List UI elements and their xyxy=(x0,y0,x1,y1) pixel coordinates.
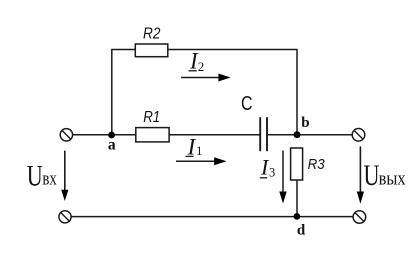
svg-text:U: U xyxy=(27,160,43,193)
svg-text:U: U xyxy=(364,159,380,192)
svg-text:a: a xyxy=(108,136,116,153)
node b xyxy=(294,115,310,138)
wire top-left vertical (node a to top branch) xyxy=(111,50,113,136)
wire R3 bottom lead (R3 to node d) xyxy=(296,180,298,217)
svg-text:R1: R1 xyxy=(143,109,160,126)
svg-text:R2: R2 xyxy=(143,26,160,43)
wire middle branch right segment (capacitor to output terminal through node b) xyxy=(267,134,352,136)
terminal output top xyxy=(352,129,365,142)
wire top-right vertical (top branch down to node b) xyxy=(296,50,298,135)
node a xyxy=(108,132,116,154)
svg-text:вых: вых xyxy=(379,168,406,189)
wire middle branch left segment (input terminal to R1) xyxy=(73,134,136,136)
svg-text:d: d xyxy=(297,223,306,239)
terminal input top xyxy=(60,129,72,141)
svg-text:R3: R3 xyxy=(308,157,325,173)
current arrow I1 xyxy=(176,134,227,165)
svg-text:1: 1 xyxy=(196,143,203,158)
wire middle branch centre segment (R1 to capacitor) xyxy=(169,134,260,136)
terminal output bottom xyxy=(353,211,366,224)
voltage arrow Uвх xyxy=(27,151,69,201)
svg-text:b: b xyxy=(301,115,309,131)
wire top branch right segment xyxy=(168,49,298,51)
wire top branch left segment xyxy=(111,49,135,51)
resistor R3 xyxy=(291,148,325,180)
capacitor C xyxy=(241,92,267,151)
svg-text:2: 2 xyxy=(198,59,205,74)
current arrow I3 xyxy=(260,151,287,204)
svg-text:вх: вх xyxy=(42,169,57,190)
terminal input bottom xyxy=(59,211,71,223)
node d xyxy=(294,213,306,239)
wire bottom branch xyxy=(71,216,353,218)
resistor R2 xyxy=(135,26,168,57)
resistor R1 xyxy=(136,109,169,142)
current arrow I2 xyxy=(181,49,231,82)
svg-text:3: 3 xyxy=(269,165,275,179)
svg-text:C: C xyxy=(241,92,253,115)
voltage arrow Uвых xyxy=(357,146,406,203)
